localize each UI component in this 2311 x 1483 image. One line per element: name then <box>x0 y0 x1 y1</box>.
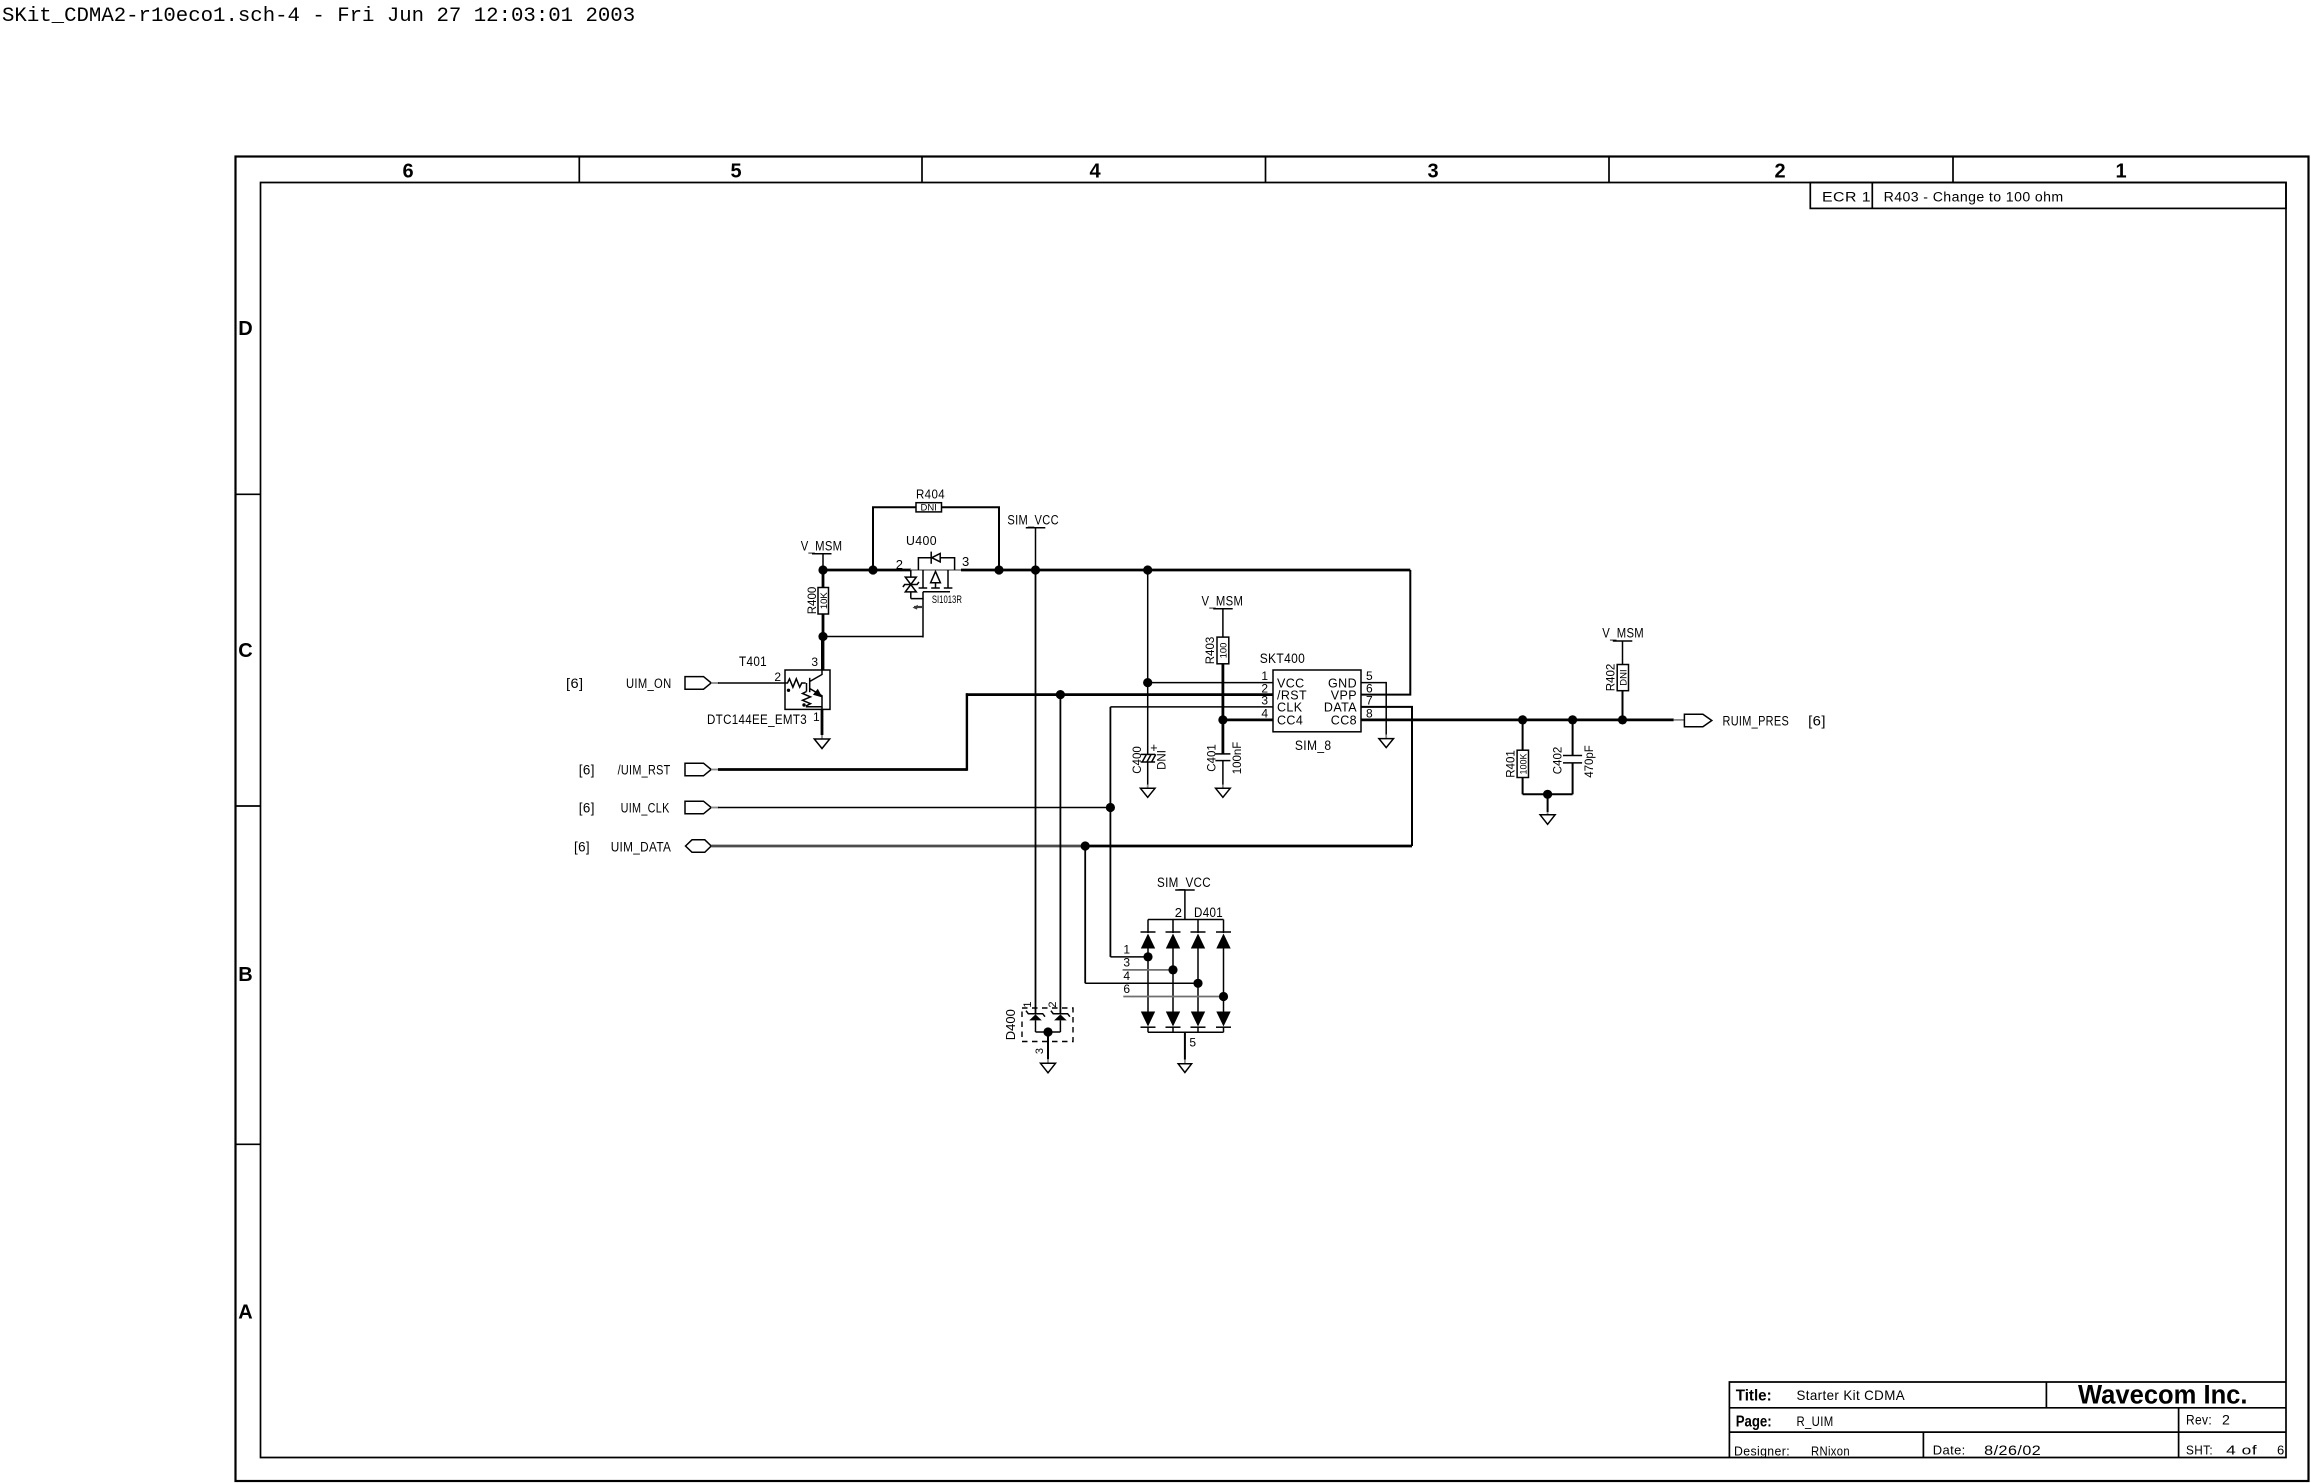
ECR table divider <box>1871 183 1873 209</box>
svg-text:U400: U400 <box>906 534 937 548</box>
svg-text:Page:: Page: <box>1736 1414 1772 1431</box>
wire R401/C402 ground bus <box>1523 793 1573 795</box>
resistor R400 <box>822 570 825 588</box>
title block row line 1 <box>1729 1407 2286 1409</box>
wire UIM_DATA gray segment <box>711 845 1085 848</box>
wire R403 bottom to CC4 and C401 <box>1222 664 1225 754</box>
diode array D401 column 4 diodes <box>1223 920 1225 934</box>
svg-text:SKit_CDMA2-r10eco1.sch-4 - Fri: SKit_CDMA2-r10eco1.sch-4 - Fri Jun 27 12… <box>2 5 635 28</box>
junction UIM_CLK riser <box>1106 803 1115 812</box>
svg-text:D401: D401 <box>1194 905 1223 921</box>
row tick B/A <box>236 1143 261 1145</box>
wire U400 channel row thin <box>910 569 962 571</box>
transistor U400 gate-source zener <box>910 570 912 577</box>
svg-text:C: C <box>238 640 252 662</box>
svg-text:SIM_VCC: SIM_VCC <box>1007 513 1059 529</box>
svg-text:R401: R401 <box>1505 750 1517 778</box>
junction D401 pin1 <box>1143 952 1152 961</box>
svg-text:+: + <box>1150 741 1157 755</box>
column tick 4/3 <box>1265 157 1267 183</box>
port UIM_DATA bidirectional <box>686 840 712 853</box>
junction R400/T401/gate <box>818 632 827 641</box>
svg-text:A: A <box>238 1302 252 1324</box>
transistor U400 substrate pin tick <box>914 606 923 608</box>
transistor T401 collector stroke <box>810 670 822 682</box>
wire CC8 row <box>1361 719 1674 722</box>
svg-text:Date:: Date: <box>1933 1443 1966 1458</box>
resistor R402 <box>1622 691 1624 720</box>
wire SIM_VCC label stub <box>1035 528 1037 570</box>
transistor U400 body diode <box>918 558 954 570</box>
svg-text:3: 3 <box>1261 694 1268 708</box>
diode array D401 column 1 diodes <box>1147 920 1149 934</box>
junction ground bus <box>1543 790 1552 799</box>
wire DATA to D401 riser <box>1084 846 1086 983</box>
svg-text:2: 2 <box>1175 905 1182 920</box>
svg-text:SKT400: SKT400 <box>1260 650 1306 666</box>
svg-text:1: 1 <box>813 710 820 724</box>
svg-text:V_MSM: V_MSM <box>1202 594 1244 610</box>
svg-text:2: 2 <box>774 670 781 684</box>
row tick D/C <box>236 493 261 495</box>
junction CC4 <box>1218 715 1227 724</box>
svg-text:4 of: 4 of <box>2226 1443 2257 1458</box>
junction R404 right <box>994 565 1003 574</box>
wire SIM_VCC stub to D401 <box>1184 890 1186 920</box>
diode array D401 top bus <box>1148 919 1224 921</box>
diode array D401 pin5 stub <box>1184 1032 1186 1059</box>
ground D401 <box>1178 1064 1191 1073</box>
svg-text:3: 3 <box>962 554 969 569</box>
svg-text:2: 2 <box>2222 1413 2230 1429</box>
resistor R404 body <box>916 503 942 512</box>
svg-text:DTC144EE_EMT3: DTC144EE_EMT3 <box>707 712 807 728</box>
svg-text:R_UIM: R_UIM <box>1797 1413 1834 1429</box>
diode array D401 bottom bus <box>1148 1031 1224 1033</box>
svg-text:5: 5 <box>730 161 741 183</box>
svg-text:6: 6 <box>2277 1443 2285 1458</box>
transistor T401 emitter stroke with arrow <box>810 689 822 710</box>
wire R404 left lead <box>873 507 916 570</box>
svg-text:5: 5 <box>1189 1036 1196 1050</box>
row tick C/B <box>236 805 261 807</box>
svg-text:[6]: [6] <box>574 840 590 856</box>
ground R401/C402 <box>1540 815 1555 825</box>
ground D400 <box>1041 1063 1056 1073</box>
svg-text:SIM_8: SIM_8 <box>1295 738 1332 754</box>
svg-text:UIM_ON: UIM_ON <box>626 676 672 692</box>
transistor U400 gate lead <box>911 592 923 599</box>
svg-text:100: 100 <box>1219 643 1230 659</box>
svg-text:2: 2 <box>896 557 903 572</box>
svg-text:DATA: DATA <box>1324 701 1357 715</box>
ground T401 <box>814 739 829 749</box>
border frame inner <box>261 183 2287 1458</box>
junction VCC branch <box>1143 565 1152 574</box>
svg-text:R402: R402 <box>1606 664 1618 692</box>
svg-text:1: 1 <box>1022 1001 1034 1007</box>
svg-text:7: 7 <box>1366 694 1373 708</box>
port UIM_ON <box>685 677 711 690</box>
wire T401 collector up to gate node <box>821 638 823 671</box>
svg-text:[6]: [6] <box>1808 714 1826 730</box>
wire D400 cathode join <box>1036 1031 1061 1033</box>
transistor T401 base bar <box>809 678 811 692</box>
svg-text:470pF: 470pF <box>1584 745 1596 778</box>
wire CLK to D401 pin1 <box>1110 956 1148 958</box>
port RUIM_PRES <box>1684 714 1711 726</box>
svg-text:10K: 10K <box>819 592 830 610</box>
wire SIM_VCC riser to D400 <box>1035 570 1037 1015</box>
svg-text:/UIM_RST: /UIM_RST <box>618 763 671 779</box>
wire gate horizontal <box>823 636 923 638</box>
svg-text:DNI: DNI <box>921 502 937 513</box>
wire UIM_CLK horizontal <box>718 807 1110 809</box>
ground SKT400 pin5 <box>1379 739 1394 748</box>
svg-text:6: 6 <box>402 161 413 183</box>
wire /UIM_RST horizontal <box>718 768 967 771</box>
capacitor C402 <box>1572 720 1574 756</box>
svg-text:C401: C401 <box>1206 744 1218 772</box>
svg-text:1: 1 <box>2115 161 2126 183</box>
wire VPP pin6 to SIM_VCC rail <box>1361 570 1410 695</box>
svg-text:C400: C400 <box>1132 746 1144 774</box>
svg-text:[6]: [6] <box>566 676 584 692</box>
junction R401 <box>1518 715 1527 724</box>
svg-text:UIM_DATA: UIM_DATA <box>611 840 672 856</box>
svg-text:Starter Kit CDMA: Starter Kit CDMA <box>1797 1387 1906 1403</box>
column tick 5/4 <box>921 157 923 183</box>
junction R402 <box>1618 715 1627 724</box>
svg-text:Title:: Title: <box>1736 1388 1772 1405</box>
ground C401 <box>1216 788 1231 797</box>
wire V_MSM rail <box>823 569 911 572</box>
wire UIM_CLK port tail <box>711 807 719 809</box>
svg-text:CLK: CLK <box>1277 701 1303 715</box>
diode array D401 column 3 diodes <box>1197 920 1199 934</box>
wire VCC branch vertical <box>1147 570 1149 754</box>
wire UIM_ON to T401 <box>718 682 785 684</box>
diode D400 pin3 stub <box>1047 1032 1049 1059</box>
column tick 3/2 <box>1608 157 1610 183</box>
wire DATA riser <box>1361 707 1412 846</box>
svg-text:100nF: 100nF <box>1232 742 1244 775</box>
svg-text:6: 6 <box>1123 982 1130 996</box>
transistor T401 pulldown resistor <box>803 692 823 707</box>
column tick 2/1 <box>1952 157 1954 183</box>
column tick 6/5 <box>578 157 580 183</box>
junction D400 pin3 <box>1043 1027 1052 1036</box>
junction VCC pin stub <box>1143 678 1152 687</box>
wire /RST row to SKT400 <box>966 693 1273 696</box>
junction /RST to D400 branch <box>1056 690 1065 699</box>
svg-text:R403: R403 <box>1205 637 1217 665</box>
junction C402 <box>1568 715 1577 724</box>
svg-text:SHT:: SHT: <box>2186 1443 2213 1458</box>
wire VCC pin stub <box>1148 682 1273 684</box>
resistor R401 <box>1522 720 1524 750</box>
svg-text:4: 4 <box>1123 969 1130 983</box>
title block row line 2 <box>1729 1431 2286 1433</box>
title block divider rev <box>2178 1408 2180 1458</box>
svg-text:4: 4 <box>1089 161 1101 183</box>
svg-text:3: 3 <box>1427 161 1438 183</box>
transistor U400 channel <box>922 570 924 588</box>
wire CLK riser <box>1109 707 1111 957</box>
port UIM_CLK <box>685 801 711 814</box>
transistor T401 base resistor <box>785 679 806 687</box>
svg-text:R400: R400 <box>807 587 819 615</box>
diode D400 dashed box <box>1022 1008 1073 1042</box>
junction SIM_VCC label stub <box>1031 565 1040 574</box>
title block outline <box>1729 1382 2286 1458</box>
wire UIM_DATA black segment <box>1085 845 1412 848</box>
svg-text:R404: R404 <box>916 488 945 502</box>
transistor T401 box <box>785 670 830 709</box>
svg-text:DNI: DNI <box>1156 750 1168 770</box>
svg-text:C402: C402 <box>1553 747 1565 775</box>
svg-text:2: 2 <box>1047 1001 1059 1007</box>
wire D401 pin4 row <box>1085 982 1198 984</box>
svg-text:T401: T401 <box>739 654 767 670</box>
wire UIM_ON port tail <box>711 682 719 684</box>
wire gate riser <box>922 599 924 638</box>
svg-text:R403 - Change to 100 ohm: R403 - Change to 100 ohm <box>1884 190 2064 206</box>
wire /RST riser to D400 <box>1059 695 1061 1015</box>
svg-text:[6]: [6] <box>579 801 595 817</box>
svg-text:CC4: CC4 <box>1277 714 1303 728</box>
transistor U400 gate bar <box>923 591 950 593</box>
wire CLK pin stub <box>1110 706 1273 708</box>
wire V_MSM stub <box>822 554 824 570</box>
svg-text:D: D <box>238 318 252 340</box>
diode D400 zener 2 <box>1051 1011 1070 1017</box>
diode D400 zener 1 <box>1026 1011 1045 1017</box>
svg-text:B: B <box>238 964 252 986</box>
svg-text:3: 3 <box>811 655 818 669</box>
svg-text:1: 1 <box>1123 943 1130 957</box>
port /UIM_RST <box>685 763 711 776</box>
svg-text:D400: D400 <box>1003 1009 1018 1040</box>
svg-text:2: 2 <box>1774 161 1785 183</box>
wire CC4 pin stub <box>1223 719 1273 722</box>
svg-text:V_MSM: V_MSM <box>801 539 843 555</box>
svg-text:DNI: DNI <box>1618 669 1629 685</box>
wire V_MSM stub to R403 <box>1222 609 1224 637</box>
svg-text:Wavecom Inc.: Wavecom Inc. <box>2078 1380 2248 1410</box>
title block divider designer/date <box>1922 1432 1924 1457</box>
svg-text:Rev:: Rev: <box>2186 1413 2212 1429</box>
svg-text:RUIM_PRES: RUIM_PRES <box>1723 714 1790 730</box>
wire GND pin5 <box>1361 683 1386 735</box>
wire R400 bottom <box>822 614 825 670</box>
svg-text:3: 3 <box>1123 956 1130 970</box>
junction V_MSM stub/R400 <box>818 565 827 574</box>
svg-text:RNixon: RNixon <box>1811 1444 1850 1459</box>
wire R404 right lead <box>942 507 1000 570</box>
svg-text:3: 3 <box>1034 1048 1046 1054</box>
ECR table box <box>1810 183 2286 209</box>
diode array D401 column 2 diodes <box>1172 920 1174 934</box>
junction R404 left <box>868 565 877 574</box>
svg-text:4: 4 <box>1261 707 1268 721</box>
wire /UIM_RST riser <box>966 693 968 771</box>
junction UIM_DATA riser <box>1081 841 1090 850</box>
wire /UIM_RST port tail <box>711 769 719 771</box>
svg-text:8/26/02: 8/26/02 <box>1984 1443 2041 1459</box>
resistor R403 <box>1217 637 1229 664</box>
svg-text:ECR 1: ECR 1 <box>1822 190 1871 206</box>
svg-text:SIM_VCC: SIM_VCC <box>1157 875 1211 891</box>
svg-text:[6]: [6] <box>579 763 595 779</box>
wire SIM_VCC rail <box>961 569 1410 572</box>
svg-text:Designer:: Designer: <box>1734 1444 1790 1459</box>
svg-text:UIM_CLK: UIM_CLK <box>621 801 670 817</box>
socket SKT400 box <box>1273 670 1361 732</box>
svg-text:100K: 100K <box>1518 753 1528 774</box>
svg-text:CC8: CC8 <box>1331 714 1357 728</box>
svg-text:SI1013R: SI1013R <box>932 594 962 606</box>
wire T401 emitter down <box>821 709 824 735</box>
title block divider title/company <box>2045 1382 2047 1408</box>
svg-text:V_MSM: V_MSM <box>1602 626 1644 642</box>
ground C400 <box>1140 788 1155 797</box>
